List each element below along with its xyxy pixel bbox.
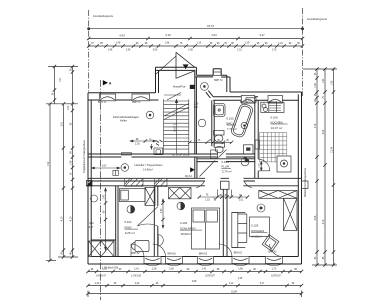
svg-text:1,85: 1,85 — [332, 80, 334, 85]
wall stairwell left — [156, 67, 159, 93]
svg-text:1,12: 1,12 — [229, 283, 234, 285]
door threshold bike — [121, 153, 131, 155]
svg-text:1,48: 1,48 — [108, 50, 113, 52]
dimension labels top — [91, 15, 328, 52]
kitchen tile grid — [260, 133, 287, 163]
svg-text:1,01: 1,01 — [239, 199, 244, 201]
closet W — [154, 148, 163, 155]
wc 2 — [214, 143, 225, 147]
dim 2.03 — [130, 140, 156, 142]
svg-text:97: 97 — [91, 43, 94, 45]
bottom dimension line 1 — [88, 271, 302, 273]
svg-text:Keller: Keller — [120, 119, 127, 123]
wall schlafen wohnen — [223, 189, 227, 256]
window niche BRH72 top — [213, 69, 221, 76]
svg-text:3,76: 3,76 — [315, 123, 317, 128]
schlafen chair — [158, 235, 163, 247]
interior walls — [88, 100, 302, 256]
exterior box east — [302, 181, 309, 189]
svg-text:1,88: 1,88 — [102, 269, 107, 271]
closet X bottom left — [89, 241, 115, 257]
svg-text:Treppenhaus im Untergeschoss: Treppenhaus im Untergeschoss — [83, 139, 86, 173]
svg-text:92: 92 — [292, 283, 295, 285]
section line A — [100, 80, 102, 300]
svg-text:1,48: 1,48 — [165, 43, 170, 45]
table label box — [250, 217, 270, 237]
svg-text:45: 45 — [114, 283, 117, 285]
svg-text:1,00: 1,00 — [259, 163, 261, 168]
svg-text:1,31: 1,31 — [237, 50, 242, 52]
svg-text:76: 76 — [180, 43, 183, 45]
svg-text:36: 36 — [224, 43, 227, 45]
svg-text:Hausflur / Treppenhaus: Hausflur / Treppenhaus — [135, 163, 164, 167]
svg-text:BRH 62: BRH 62 — [268, 251, 277, 253]
svg-text:3,17: 3,17 — [260, 283, 265, 285]
svg-text:2,43: 2,43 — [103, 194, 105, 199]
svg-text:4,43: 4,43 — [119, 34, 125, 38]
svg-text:2,03: 2,03 — [135, 143, 140, 145]
svg-text:4,10: 4,10 — [71, 216, 73, 221]
svg-text:92: 92 — [289, 43, 292, 45]
svg-text:1,75: 1,75 — [272, 50, 277, 52]
svg-text:45: 45 — [226, 140, 229, 142]
svg-text:Werkstatt im Untergeschoss: Werkstatt im Untergeschoss — [304, 167, 307, 197]
svg-text:4,10: 4,10 — [62, 216, 64, 221]
wall north right — [213, 92, 301, 100]
top dimension line 1 overall — [88, 28, 304, 30]
svg-text:90: 90 — [217, 43, 220, 45]
svg-text:Ablage: Ablage — [248, 100, 254, 103]
svg-text:1,76: 1,76 — [196, 140, 201, 142]
svg-text:BAD: BAD — [227, 121, 233, 125]
svg-text:1,80: 1,80 — [238, 269, 243, 271]
wohnen contents — [232, 191, 297, 252]
svg-text:50: 50 — [297, 43, 300, 45]
svg-text:BRH 71: BRH 71 — [98, 102, 107, 104]
top dimension line 3 — [87, 44, 304, 47]
bottom dim ticks line2 — [86, 284, 303, 287]
svg-text:0.103: 0.103 — [251, 224, 259, 228]
svg-text:WOHNEN: WOHNEN — [251, 229, 264, 233]
bathtub — [230, 103, 254, 139]
dimension labels bottom — [91, 269, 298, 294]
wall south — [88, 257, 302, 265]
dim 1,00 kitchen door — [260, 162, 262, 171]
svg-text:2,28: 2,28 — [194, 104, 199, 106]
dimension labels right rotated — [315, 72, 334, 259]
wall kind schlafen — [154, 186, 158, 257]
svg-text:2,64: 2,64 — [211, 33, 217, 37]
svg-text:3,96: 3,96 — [315, 215, 317, 220]
svg-text:90: 90 — [187, 269, 190, 271]
sink — [214, 104, 226, 117]
svg-text:98: 98 — [103, 210, 105, 213]
entry door leaf — [200, 161, 216, 177]
svg-text:0.101: 0.101 — [125, 220, 133, 224]
wardrobe right — [284, 198, 298, 230]
entrance door leaf — [176, 71, 195, 79]
svg-text:1,01: 1,01 — [205, 199, 210, 201]
wall corridor end / entry — [195, 157, 197, 178]
bottom dim ticks line1 — [86, 270, 303, 273]
svg-text:96: 96 — [100, 43, 103, 45]
schlafen contents — [169, 188, 220, 250]
armchair — [262, 235, 279, 252]
svg-text:1,43: 1,43 — [95, 283, 100, 285]
svg-text:76: 76 — [206, 195, 209, 197]
wall stair landing — [195, 77, 197, 154]
svg-text:4,26: 4,26 — [323, 129, 325, 134]
svg-text:14,90m²: 14,90m² — [143, 167, 153, 171]
wall rooms top band — [91, 185, 298, 187]
windows south wall — [144, 257, 283, 266]
wall bath left — [212, 100, 214, 146]
kind room contents — [119, 187, 158, 251]
svg-text:36: 36 — [210, 43, 213, 45]
wall bike room top — [88, 93, 159, 100]
svg-text:1,25: 1,25 — [245, 43, 250, 45]
svg-text:5,51: 5,51 — [62, 121, 64, 126]
doors to schlafen and wohnen with dim chain — [196, 181, 252, 201]
stairs — [156, 99, 189, 154]
svg-text:18,92m²: 18,92m² — [180, 232, 191, 236]
svg-text:96: 96 — [145, 43, 148, 45]
svg-text:0,97/0,47: 0,97/0,47 — [96, 276, 106, 278]
svg-text:90: 90 — [231, 43, 234, 45]
svg-text:0,97/0,97: 0,97/0,97 — [271, 276, 281, 278]
svg-text:90: 90 — [136, 43, 139, 45]
svg-text:1,63: 1,63 — [102, 166, 107, 168]
vent circle — [241, 158, 249, 166]
svg-text:7,32: 7,32 — [48, 161, 50, 166]
svg-text:1,01: 1,01 — [194, 107, 199, 109]
right dim chain lines — [303, 67, 337, 266]
svg-text:BRH 62: BRH 62 — [234, 252, 243, 254]
svg-text:0,97/0,97: 0,97/0,97 — [205, 276, 215, 278]
svg-text:Wg 6.1: Wg 6.1 — [185, 176, 193, 178]
svg-text:90: 90 — [265, 43, 268, 45]
top dimension line 2 — [87, 37, 304, 40]
svg-text:1,41: 1,41 — [134, 269, 139, 271]
bike room contents — [121, 139, 162, 155]
svg-text:1,40: 1,40 — [315, 83, 317, 88]
svg-text:BRH 71: BRH 71 — [132, 102, 141, 104]
svg-text:1,31: 1,31 — [278, 43, 283, 45]
svg-text:0.105: 0.105 — [227, 116, 235, 120]
svg-text:1,28: 1,28 — [152, 269, 157, 271]
schlafen wall dim — [162, 199, 164, 228]
svg-text:96: 96 — [217, 269, 220, 271]
svg-text:9,25 m²: 9,25 m² — [125, 231, 135, 235]
svg-text:16,47 m²: 16,47 m² — [271, 126, 282, 130]
svg-text:KIND: KIND — [125, 225, 132, 229]
svg-text:90: 90 — [119, 269, 122, 271]
svg-text:Fahrrad/Abstellwagen: Fahrrad/Abstellwagen — [113, 115, 140, 119]
shelf ablage — [246, 98, 256, 103]
svg-text:1,51: 1,51 — [60, 77, 62, 82]
corridor radiator — [113, 170, 118, 175]
svg-text:3,19: 3,19 — [165, 33, 171, 37]
kitchen door — [258, 159, 270, 171]
svg-text:BRH 62: BRH 62 — [199, 254, 208, 256]
svg-text:0.102: 0.102 — [180, 221, 188, 225]
bottom dim ticks line3 — [86, 291, 303, 298]
svg-text:4,98: 4,98 — [192, 281, 197, 283]
property line left — [88, 10, 90, 92]
washing machine — [244, 145, 254, 154]
wall flur top — [197, 159, 256, 162]
chimney hatch 2 — [155, 178, 168, 186]
wardrobe kind — [145, 187, 155, 205]
dimension labels left rotated — [48, 68, 73, 255]
south window interior swing arcs — [131, 244, 283, 257]
svg-text:1,36: 1,36 — [126, 50, 131, 52]
property line right — [302, 8, 304, 96]
svg-text:36: 36 — [257, 43, 260, 45]
svg-text:2,23: 2,23 — [135, 283, 140, 285]
svg-text:HausFlur: HausFlur — [173, 85, 186, 89]
svg-text:1,25: 1,25 — [197, 43, 202, 45]
svg-text:7,73 m²: 7,73 m² — [227, 127, 237, 131]
landing area — [188, 119, 233, 144]
svg-text:KÜCHEN: KÜCHEN — [271, 120, 283, 124]
svg-text:2,43: 2,43 — [161, 208, 163, 213]
svg-text:0.106: 0.106 — [271, 115, 279, 119]
wall stairwell top — [156, 67, 197, 70]
bottom dimension line 2 — [88, 285, 302, 287]
stove — [277, 156, 291, 172]
wc — [214, 131, 225, 136]
section flag A top — [103, 80, 108, 85]
svg-text:1,48: 1,48 — [116, 42, 121, 44]
svg-text:UZ 10 DF 5x0,62: UZ 10 DF 5x0,62 — [172, 155, 190, 157]
svg-text:1,63: 1,63 — [68, 105, 70, 110]
svg-text:SCHLAFEN: SCHLAFEN — [180, 226, 195, 230]
svg-text:13,34: 13,34 — [332, 146, 334, 153]
shelf top — [259, 191, 297, 199]
svg-text:90: 90 — [239, 195, 242, 197]
svg-text:4,10: 4,10 — [323, 219, 325, 224]
wall kind left strip — [91, 186, 118, 257]
wardrobe schlafen — [169, 188, 192, 199]
svg-text:Grundstücksgrenze: Grundstücksgrenze — [307, 18, 328, 21]
svg-text:1,98: 1,98 — [188, 50, 193, 52]
svg-text:14,02m²: 14,02m² — [251, 234, 262, 238]
chimney hatch 1 — [125, 178, 143, 186]
section symbol square — [87, 181, 93, 187]
svg-text:96: 96 — [294, 269, 297, 271]
bath contents — [214, 98, 257, 154]
wall west — [88, 93, 91, 264]
svg-text:10,07: 10,07 — [88, 227, 95, 229]
windows bike room top — [99, 94, 149, 101]
hall bath corner jog — [206, 91, 213, 98]
svg-text:A: A — [109, 82, 112, 86]
svg-text:4,36: 4,36 — [238, 278, 243, 280]
svg-text:BRH 62: BRH 62 — [131, 253, 140, 255]
svg-text:15,74: 15,74 — [207, 24, 214, 28]
svg-text:1,79/1,06: 1,79/1,06 — [131, 276, 141, 278]
entrance canopy triangle — [156, 52, 195, 78]
wall recess — [255, 140, 259, 149]
svg-text:1,06: 1,06 — [71, 160, 73, 165]
svg-text:45: 45 — [156, 283, 159, 285]
svg-text:1,41: 1,41 — [202, 269, 207, 271]
wall corridor top / bike bottom — [88, 154, 255, 157]
svg-text:1,99m: 1,99m — [88, 223, 95, 225]
flag Wg6.1 — [190, 167, 194, 172]
left strip contents — [91, 188, 108, 250]
windows north wall — [241, 96, 282, 111]
wall stairwell right jog — [195, 67, 230, 92]
left dim chain lines — [46, 65, 78, 262]
svg-text:0.104: 0.104 — [222, 160, 230, 164]
building walls — [88, 67, 302, 264]
wall bath kitchen — [255, 100, 258, 178]
wall east — [298, 92, 301, 264]
svg-text:1,45: 1,45 — [323, 78, 325, 83]
svg-text:FLUR: FLUR — [222, 165, 230, 169]
bed kind — [119, 189, 145, 202]
small door bath vestibule — [211, 150, 227, 159]
svg-text:96: 96 — [91, 269, 94, 271]
svg-text:BRH 62: BRH 62 — [168, 254, 177, 256]
svg-text:3,74 m²: 3,74 m² — [222, 170, 232, 174]
svg-text:3,27: 3,27 — [259, 33, 265, 37]
circle G bike — [146, 111, 154, 119]
corridor contents — [92, 164, 129, 172]
svg-text:1,80: 1,80 — [169, 269, 174, 271]
svg-text:15,84: 15,84 — [231, 291, 238, 293]
bed schlafen — [192, 208, 220, 249]
desk kind — [135, 241, 149, 252]
svg-text:16x17,5: 16x17,5 — [175, 123, 177, 132]
svg-text:BRH 72: BRH 72 — [214, 80, 223, 82]
wall corridor bottom band — [88, 178, 302, 181]
entrance steps — [164, 93, 181, 101]
svg-text:1,72: 1,72 — [272, 269, 277, 271]
svg-text:0,90: 0,90 — [153, 50, 158, 52]
kitchen contents — [255, 102, 291, 172]
bottom dimension line 3 — [88, 293, 302, 295]
svg-text:90: 90 — [253, 269, 256, 271]
svg-text:Grundstücksgrenze: Grundstücksgrenze — [93, 15, 114, 18]
door kind — [137, 207, 158, 227]
sofa — [232, 213, 238, 248]
